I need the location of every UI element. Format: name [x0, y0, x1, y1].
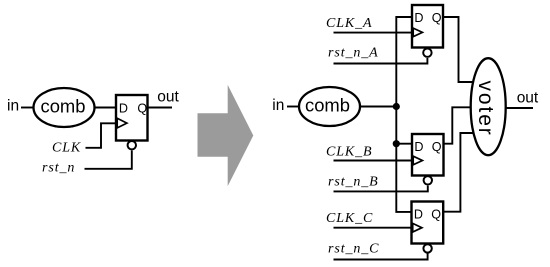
svg-text:CLK: CLK	[52, 141, 81, 156]
svg-text:rst_n_A: rst_n_A	[328, 46, 379, 61]
svg-text:comb: comb	[41, 95, 86, 116]
FF_A clock triangle	[413, 28, 422, 37]
flip-flop FF1 (left)	[116, 95, 148, 149]
junction dot at comb output	[393, 103, 400, 110]
FF_B reset bubble	[424, 176, 432, 184]
comb ellipse (right)	[299, 87, 360, 126]
wire: rst_n_B to FF_B bubble	[334, 186, 428, 192]
FF_C clock triangle	[413, 223, 422, 232]
FF_A reset bubble	[423, 49, 431, 57]
wire: FF_A Q to voter	[443, 17, 474, 82]
FF_C reset bubble	[423, 244, 431, 252]
svg-text:comb: comb	[305, 95, 350, 116]
wire: vertical trunk with branches to FF_A, FF_B, FF_C D inputs	[396, 17, 412, 212]
wire: comb output to trunk junction	[360, 106, 396, 108]
svg-text:CLK_B: CLK_B	[326, 145, 373, 160]
wire: FF1 Q to out	[148, 107, 173, 109]
wire: rst_n_A to FF_A bubble	[334, 58, 428, 64]
wire: CLK_B to FF_B clock	[334, 160, 413, 162]
svg-text:voter: voter	[474, 81, 497, 137]
wire: CLK_C to FF_C clock	[334, 227, 412, 229]
FF_B clock triangle	[413, 156, 422, 165]
svg-text:out: out	[517, 89, 539, 106]
flip-flop FF_C	[412, 202, 444, 253]
svg-text:D: D	[414, 140, 423, 154]
wire: FF_C Q to voter	[443, 133, 473, 212]
wire: in to comb (right)	[287, 106, 299, 108]
svg-text:Q: Q	[431, 207, 441, 221]
wire: in to comb (left)	[21, 107, 34, 109]
svg-text:rst_n: rst_n	[42, 160, 75, 175]
svg-text:Q: Q	[432, 11, 442, 25]
svg-text:Q: Q	[137, 102, 147, 116]
svg-text:Q: Q	[432, 140, 442, 154]
svg-text:rst_n_B: rst_n_B	[328, 175, 379, 190]
flip-flop FF_A	[412, 5, 443, 57]
FF_C box	[412, 202, 444, 244]
FF1 reset bubble	[128, 141, 136, 149]
svg-text:D: D	[414, 11, 423, 25]
svg-text:CLK_A: CLK_A	[326, 16, 373, 31]
wire: CLK to FF1 clock	[86, 123, 117, 148]
svg-text:in: in	[7, 98, 19, 115]
junction dot at FF_B branch	[393, 140, 400, 147]
wire: CLK_A to FF_A clock	[334, 32, 413, 34]
wire: rst_n_C to FF_C bubble	[334, 253, 428, 259]
svg-text:in: in	[272, 97, 284, 114]
FF_A box	[412, 5, 443, 48]
wire: rst_n to FF1 bubble	[85, 151, 132, 169]
svg-text:D: D	[119, 102, 128, 116]
wire: comb to FF1 D input	[95, 107, 118, 109]
big gray transform arrow	[198, 85, 254, 186]
flip-flop FF_B	[412, 134, 444, 185]
FF_B box	[412, 134, 444, 176]
FF1 box	[116, 95, 148, 141]
FF1 clock triangle	[117, 118, 127, 128]
svg-text:rst_n_C: rst_n_C	[328, 241, 379, 256]
svg-text:CLK_C: CLK_C	[326, 211, 373, 226]
wire: FF_B Q to voter	[444, 107, 472, 143]
comb ellipse (left)	[34, 88, 95, 127]
svg-text:out: out	[157, 89, 179, 106]
wire: voter to out	[506, 107, 534, 109]
voter ellipse	[471, 58, 506, 155]
svg-text:D: D	[414, 207, 423, 221]
